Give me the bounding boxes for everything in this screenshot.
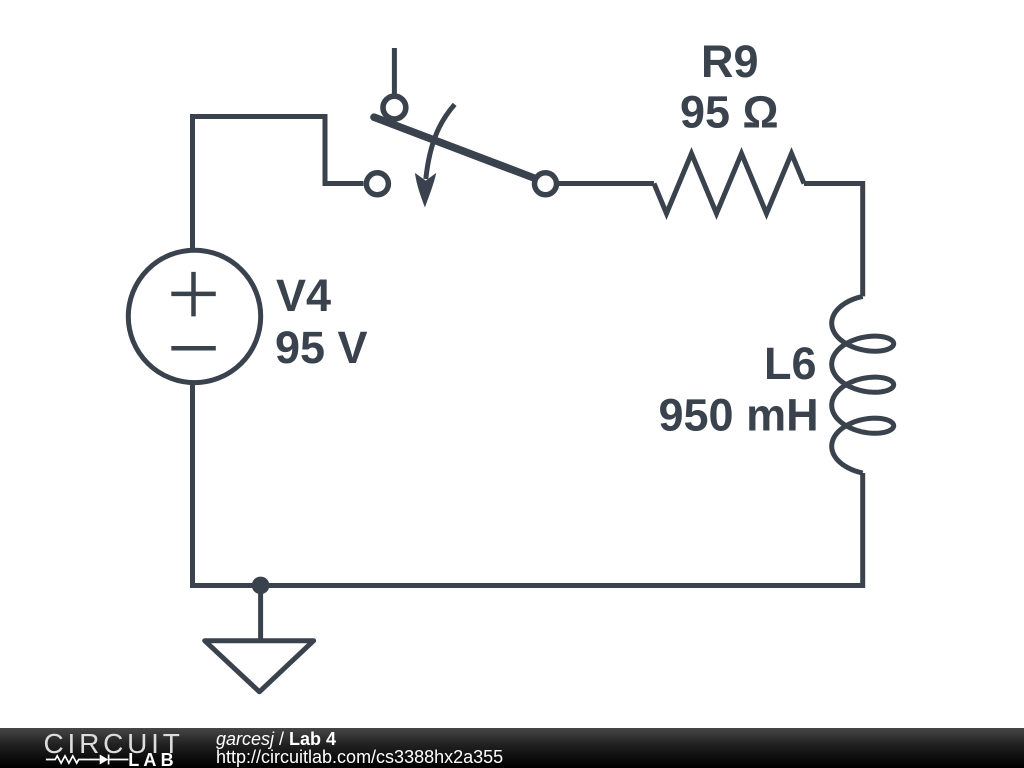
wire: switch right terminal to resistor (559, 181, 654, 186)
url text (216, 748, 503, 766)
switch right terminal circle (535, 173, 557, 195)
svg-text:950 mH: 950 mH (659, 390, 819, 441)
svg-text:V4: V4 (276, 270, 331, 321)
V4 plus sign (171, 272, 216, 317)
voltage source V4 circle (128, 250, 260, 382)
CircuitLab logo mark (resistor + diode) (0, 728, 180, 768)
resistor R9 (654, 154, 804, 214)
credit text (216, 730, 336, 748)
logo resistor squiggle (46, 756, 100, 763)
logo diode output wire (110, 759, 129, 761)
inductor L6 (832, 296, 894, 473)
switch left terminal circle (366, 173, 388, 195)
wire: switch pivot stub (392, 48, 397, 98)
switch arrow head (415, 173, 436, 208)
V4 minus sign (171, 346, 216, 351)
switch lever (374, 117, 534, 178)
wire from inductor bottom to bottom rail (193, 382, 863, 586)
logo diode triangle (100, 755, 109, 765)
switch actuation arrow arc (426, 104, 455, 179)
CircuitLab logo word LAB (128, 751, 178, 768)
logo diode bar (108, 755, 110, 765)
svg-text:95 Ω: 95 Ω (680, 87, 779, 138)
switch SW pivot circle (383, 96, 406, 119)
svg-text:95 V: 95 V (275, 322, 368, 373)
ground symbol (205, 641, 314, 692)
svg-text:R9: R9 (701, 36, 759, 87)
svg-text:L6: L6 (764, 338, 817, 389)
CircuitLab logo word CIRCUIT (44, 730, 184, 758)
ground stem wire (258, 585, 263, 640)
wire from resistor to inductor top (804, 184, 863, 297)
wire from V4 top to switch left terminal (193, 117, 364, 251)
footer bar (0, 728, 1024, 768)
node: junction dot (252, 577, 270, 595)
